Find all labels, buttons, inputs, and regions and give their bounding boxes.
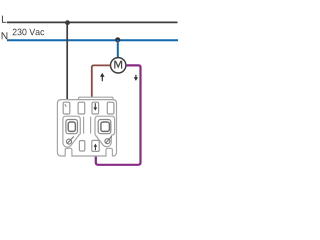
wire N line (7, 39, 178, 41)
wire L line (7, 21, 178, 23)
bottom terminal up arrow (94, 144, 98, 151)
terminal T3 down arrow (93, 103, 97, 111)
wire brown from motor left to switch top (92, 65, 111, 97)
switch outer body outline (57, 100, 116, 156)
wire blue vertical from N to motor (117, 40, 119, 58)
switch S1 mechanism (rear view) (57, 97, 116, 156)
junction on L (65, 20, 70, 25)
right contact housing with screw pouch (95, 116, 115, 147)
wire purple from motor right down and to switch bottom (96, 65, 141, 164)
node N label (2, 32, 8, 39)
central rib (83, 117, 85, 134)
node L label (2, 16, 6, 23)
left screw (67, 137, 74, 145)
wire black vertical from L to switch (66, 22, 68, 100)
motor U1 circle (111, 58, 126, 73)
junction on N (115, 37, 120, 42)
right screw (105, 136, 112, 143)
arrow up (raise) (100, 73, 105, 81)
value label 230 Vac (13, 29, 45, 36)
left contact housing with screw pouch (63, 116, 80, 147)
arrow down (lower) (134, 75, 138, 81)
bottom terminal right (92, 140, 99, 151)
terminal T4 (107, 102, 114, 114)
switch top raised strip (79, 97, 113, 99)
terminal T1 mark (65, 104, 67, 107)
terminal T3 (92, 102, 99, 114)
terminal T2 (78, 102, 85, 114)
bottom terminal left (79, 141, 84, 151)
motor label M (115, 61, 122, 68)
terminal T1 (63, 102, 70, 114)
